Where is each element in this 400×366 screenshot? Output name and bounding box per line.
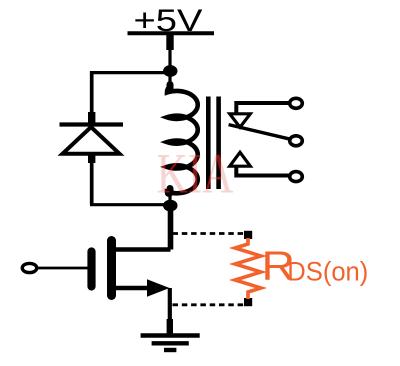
relay NC terminal circle bbox=[290, 98, 303, 108]
relay coil L1 bottom lead bbox=[167, 189, 174, 194]
dashed line: source to RDS(on) bottom bbox=[173, 303, 247, 306]
relay NO fixed contact triangle bbox=[230, 152, 251, 166]
resistor RDS(on) zigzag bbox=[235, 238, 261, 299]
dashed line: drain to RDS(on) top bbox=[173, 232, 247, 235]
relay NC fixed contact triangle bbox=[230, 114, 251, 127]
wire: input to gate bbox=[38, 267, 88, 270]
MOSFET Q1 source lead bbox=[110, 286, 152, 290]
ground symbol bar 3 bbox=[164, 348, 176, 352]
relay COM terminal circle bbox=[290, 136, 303, 146]
RDS(on) top terminal square bbox=[244, 231, 252, 239]
wire: node B to drain bbox=[168, 207, 174, 250]
svg-text:DS(on): DS(on) bbox=[287, 256, 368, 286]
relay core line 2 bbox=[216, 97, 221, 190]
ground symbol bar 2 bbox=[152, 341, 189, 345]
diode D1 bottom lead bbox=[88, 153, 95, 163]
node A junction dot bbox=[163, 65, 177, 77]
relay NC contact wire bbox=[236, 103, 290, 116]
wire: node A to coil bbox=[168, 75, 171, 87]
MOSFET Q1 gate input terminal circle bbox=[22, 263, 37, 272]
wire: diode branch top vertical bbox=[90, 71, 94, 115]
node B junction dot bbox=[163, 200, 177, 212]
MOSFET Q1 channel bar bbox=[107, 241, 116, 296]
relay core line 1 bbox=[206, 97, 211, 190]
relay NO terminal circle bbox=[290, 172, 303, 182]
diode D1 triangle bbox=[63, 127, 120, 154]
MOSFET Q1 drain lead bbox=[110, 247, 171, 251]
RDS(on) bottom terminal square bbox=[244, 298, 252, 306]
+5V supply bar bbox=[128, 31, 215, 35]
diode D1 cathode bar bbox=[60, 122, 124, 126]
relay movable contact arm bbox=[229, 125, 295, 141]
ground symbol bar 1 bbox=[141, 333, 200, 337]
wire: supply bar to node A bbox=[166, 33, 173, 50]
wire: source to ground bbox=[168, 288, 172, 334]
relay coil L1 top lead bbox=[167, 85, 174, 90]
diode D1 top lead bbox=[88, 112, 95, 123]
relay NO contact wire bbox=[236, 165, 290, 176]
MOSFET Q1 source arrow bbox=[147, 279, 170, 297]
wire: node A to diode branch bbox=[90, 71, 170, 74]
wire: coil to node B bbox=[168, 190, 171, 202]
MOSFET Q1 gate bar bbox=[87, 252, 95, 287]
wire: diode branch bottom vertical bbox=[90, 161, 94, 205]
wire: diode branch to node B bbox=[90, 203, 170, 206]
svg-text:KIA: KIA bbox=[157, 142, 234, 205]
relay coil L1 bbox=[167, 87, 198, 195]
ground lead bbox=[167, 319, 173, 334]
